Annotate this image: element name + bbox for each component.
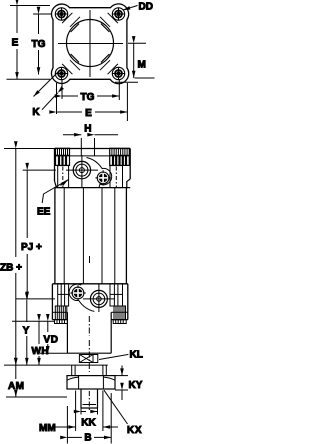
svg-text:TG: TG [32,39,46,50]
left ext line AM bottom [6,396,67,398]
dim M right: extension top [128,42,146,44]
dim E bottom: line [57,111,83,113]
svg-text:H: H [84,124,91,135]
dim KK [81,411,98,413]
corner chamfer outer line bottom-left [70,60,80,70]
left ext line neck bottom [40,352,67,354]
dim M right: line [133,43,135,78]
tie rod end block cap right [110,284,123,306]
top view: bore horizontal centerline [58,43,123,45]
right ext hex top [115,375,128,377]
bore edge tick bottom-left [71,54,79,62]
svg-text:E: E [12,38,19,49]
neck / pilot boss [67,312,111,353]
barrel centerline dash [89,256,91,263]
dim H: extensions [80,138,82,149]
bore edge tick bottom-right [101,54,109,62]
svg-text:Y: Y [23,326,30,337]
dim PJ line [26,170,28,299]
cap knurled nut left [55,306,68,324]
dim KY [121,366,123,401]
dim AM line [15,365,17,397]
dim MM arrow [54,426,76,428]
MM extension lines [75,391,77,432]
corner chamfer inner line bottom-left [62,64,72,74]
rod collar section [72,365,107,376]
tie-rod nut bottom-left [55,67,67,79]
top view: head plate outline with corner bumps [51,4,128,84]
left ext line cap bottom [12,320,54,322]
KK extension lines [80,408,82,415]
port circles cap end [83,284,115,312]
top view: bore circle [67,20,114,67]
svg-text:ZB +: ZB + [0,263,22,274]
B ext left [66,406,68,444]
svg-text:K: K [32,107,40,118]
bottom cap top face [52,283,127,285]
extra ext line right [115,81,138,83]
tie rod end block head right [110,166,123,188]
barrel inner line left [82,188,84,284]
left ext line port head [23,169,56,171]
bore edge tick top-right [101,24,109,32]
port EE circles [66,155,98,188]
front view: H boss [80,149,82,156]
left ext line hex top [4,364,71,366]
leader EE [42,180,68,203]
right ext hex bottom [115,389,128,391]
dim E bottom: extension right [126,83,128,121]
front view: head right edge [129,149,131,180]
leader DD [123,6,138,11]
corner chamfer inner line top-left [62,13,72,23]
svg-text:VD: VD [44,335,59,346]
svg-text:B: B [84,433,91,444]
tie rod right [114,188,116,284]
dim MM right arrow [103,426,118,428]
bottom cap left edge [51,284,53,320]
bore edge tick top-left [71,24,79,32]
svg-text:KY: KY [129,380,143,391]
dim TG left: extension top [33,13,52,15]
left ext line head top [4,148,56,150]
svg-text:WH: WH [32,346,49,357]
svg-text:AM: AM [8,381,24,392]
dim E left: line [16,6,18,34]
front view: head left bottom chamfer [55,181,57,188]
bottom cap band line [52,311,67,313]
tie-rod nut top-left [55,8,67,20]
B ext right [110,393,112,444]
dim H: line [63,134,81,136]
tie-rod nut bottom-right [112,67,124,79]
front view: head top face [55,148,131,150]
dim TG bottom: extension left [61,80,63,99]
cap knurled nut right [113,306,126,324]
dim WH line [38,321,40,365]
leader K arrow 1 [34,72,59,97]
tie-rod nut top-right [112,8,124,20]
front view: head left edge [54,149,56,182]
dim B [67,436,111,438]
front view: head bottom face [55,187,131,189]
dim TG left: line [38,14,40,34]
rod centerline dashes [88,316,90,336]
port boss outline head [87,158,112,188]
dim VD line [47,321,49,353]
svg-text:DD: DD [139,2,153,13]
dim M right: extension bottom [135,77,155,79]
bottom cap right edge [127,284,129,320]
svg-text:PJ +: PJ + [21,242,42,253]
svg-text:KX: KX [127,425,142,436]
dim ZB line [15,149,17,366]
tie rod end block head left [58,166,69,188]
leader KL [99,354,128,359]
tie rod end block cap left [58,284,69,306]
head knurled nut left [56,148,70,165]
front view: head right bottom step [127,179,130,188]
barrel inner line right [101,188,103,284]
barrel right edge [125,188,127,284]
leader KX [104,390,128,424]
svg-text:KK: KK [81,418,96,429]
svg-text:MM: MM [39,423,56,434]
corner chamfer outer line top-left [70,17,80,27]
threaded rod [81,389,98,408]
left ext line port cap [16,298,55,300]
port boss outline cap [69,283,94,311]
corner chamfer inner line bottom-right [108,64,118,74]
svg-text:EE: EE [37,207,51,218]
dim TG bottom: line [62,95,78,97]
svg-text:E: E [85,108,92,119]
top view: bore vertical centerline [89,10,91,77]
barrel left edge [54,188,56,284]
dim TG bottom: extension right [118,80,120,100]
front view: head band line [55,155,131,157]
corner chamfer outer line bottom-right [100,60,110,70]
tie rod left [63,188,65,284]
corner chamfer inner line top-right [108,13,118,23]
svg-text:KL: KL [130,350,143,361]
dim E bottom: extension left [56,83,58,114]
cushion screw cap end [70,285,85,300]
dim E left: extension top [10,5,50,7]
head knurled nut right [110,148,130,165]
bottom cap bottom face segments [52,319,67,321]
dim Y line [26,300,28,365]
dim E left: extension bottom [7,78,51,80]
svg-text:TG: TG [81,92,95,103]
svg-text:M: M [138,60,146,71]
corner chamfer outer line top-right [100,17,110,27]
rod end centerline dash [88,391,90,410]
hex nut [67,376,115,389]
leader K arrow 2 [42,93,58,110]
wrench flats box KL [71,355,108,366]
cushion screw head end [95,170,110,185]
